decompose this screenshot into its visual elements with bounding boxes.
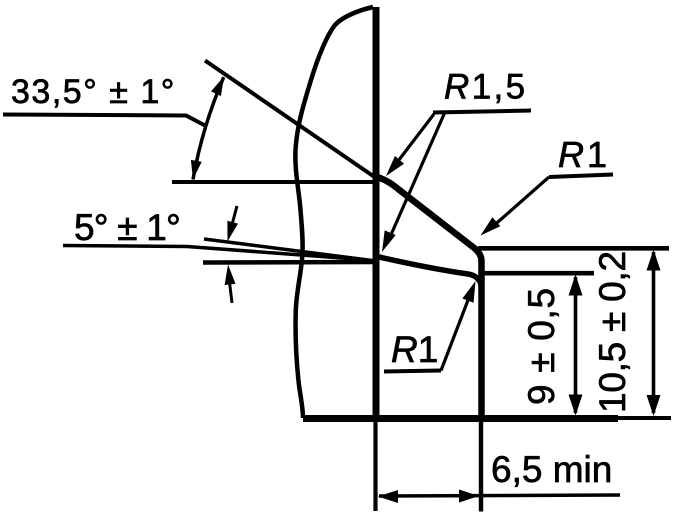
dimension 9 bottom arrowhead: [569, 395, 583, 416]
R1,5 leader b shaft: [390, 112, 445, 237]
extension line below face B: [479, 420, 483, 512]
dimension line 9 +/- 0,5: [574, 277, 578, 413]
extension line at flange tip top: [478, 246, 669, 251]
angle dimension arc 33.5 deg: [193, 77, 224, 179]
R1,5 leader b arrowhead: [376, 230, 395, 254]
thin 33.5 deg construction line: [205, 61, 376, 179]
R1 upper leader shaft: [490, 177, 549, 229]
dimension 9 top arrowhead: [569, 275, 583, 296]
5 deg dimension lower arrowhead: [223, 264, 236, 285]
leader of label 33,5: [3, 115, 205, 126]
R1,5 leader a shaft: [392, 114, 434, 169]
leader of label 5: [63, 246, 355, 260]
svg-text:9 ± 0,5: 9 ± 0,5: [521, 287, 562, 405]
profile vertical face line A: [373, 7, 380, 420]
label R1 (lower) underline: [384, 371, 441, 372]
dimension line 10,5 +/- 0,2: [652, 252, 656, 413]
extension line below face A: [373, 420, 377, 511]
dimension 10,5 bottom arrowhead: [647, 395, 661, 416]
svg-text:R1: R1: [391, 329, 438, 370]
R1 lower leader arrowhead: [462, 279, 481, 303]
R1 lower leader shaft: [441, 295, 470, 371]
dimension 6,5 left arrowhead: [378, 490, 398, 503]
5 deg dimension upper arrow shaft: [230, 206, 237, 232]
svg-text:R1,5: R1,5: [444, 68, 528, 107]
profile 5 deg flange top with R1 fillet into face B: [377, 257, 481, 286]
extension line at flange top corner: [483, 271, 594, 276]
label R1 (upper) underline: [549, 175, 613, 178]
break line (wavy): [295, 7, 373, 418]
label R1,5 underline: [433, 111, 531, 113]
5 deg dimension lower arrow shaft: [229, 278, 232, 303]
svg-text:6,5 min: 6,5 min: [491, 449, 612, 490]
thin 5 deg construction line: [204, 239, 376, 261]
dimension line 6,5 min: [379, 495, 620, 496]
5 deg dimension upper arrowhead: [222, 221, 238, 243]
profile bottom line: [303, 415, 618, 422]
extension of bottom line to the right: [618, 416, 671, 420]
dimension 10,5 top arrowhead: [647, 250, 661, 271]
horizontal reference line for 5 deg angle: [203, 260, 376, 265]
R1 upper leader arrowhead: [477, 217, 501, 240]
arc upper arrowhead: [211, 74, 229, 96]
svg-text:5° ± 1°: 5° ± 1°: [74, 207, 180, 248]
profile 33.5 deg flange face with R1 fillet into vertical face B: [377, 177, 482, 420]
arc lower arrowhead: [188, 160, 202, 181]
svg-text:10,5 ± 0,2: 10,5 ± 0,2: [592, 251, 633, 413]
svg-text:33,5° ± 1°: 33,5° ± 1°: [11, 73, 176, 111]
R1,5 leader a arrowhead: [381, 156, 404, 180]
horizontal reference line for 33.5 deg angle: [172, 180, 376, 184]
svg-text:R1: R1: [558, 134, 610, 175]
dimension 6,5 right arrowhead: [459, 490, 479, 503]
